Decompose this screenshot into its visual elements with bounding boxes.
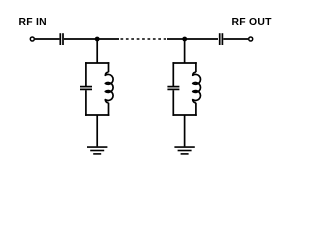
wire: tank A left branch upper bbox=[85, 62, 87, 86]
inductor LB (tank B) bbox=[193, 72, 201, 103]
wire: node to tank A top bbox=[96, 39, 98, 63]
wire: node to tank B top bbox=[184, 39, 186, 63]
wire: C1 to node A bbox=[64, 38, 97, 40]
wire: tank B left branch lower bbox=[172, 90, 174, 116]
output terminal bbox=[249, 37, 253, 41]
input terminal bbox=[30, 37, 34, 41]
wire: tank B top bar bbox=[172, 62, 196, 64]
wire: tank A bottom bar bbox=[85, 114, 109, 116]
series capacitor C2 (output coupling) bbox=[219, 33, 221, 45]
wire: node B to C2 bbox=[185, 38, 218, 40]
wire: tank B right branch lower bbox=[195, 103, 197, 116]
shunt capacitor CB (tank B) bbox=[167, 86, 179, 88]
shunt capacitor CA (tank A) bbox=[80, 86, 92, 88]
wire: C2 to output terminal bbox=[223, 38, 248, 40]
wire: tank A top bar bbox=[85, 62, 109, 64]
inductor LA (tank A) bbox=[105, 72, 113, 103]
wire: tank B left branch upper bbox=[172, 62, 174, 86]
wire: tank A left branch lower bbox=[85, 90, 87, 116]
wire: tank B right branch upper bbox=[195, 62, 197, 72]
svg-text:RF OUT: RF OUT bbox=[232, 17, 273, 28]
wire: dashed section to node B bbox=[167, 38, 185, 40]
ground B bbox=[174, 147, 194, 154]
dashed wire (omitted middle resonator sections) bbox=[121, 38, 167, 40]
wire: tank A right branch upper bbox=[108, 62, 110, 72]
ground A bbox=[87, 147, 107, 154]
node B junction dot bbox=[182, 37, 187, 42]
wire: tank A to ground bbox=[96, 115, 98, 146]
wire: node A toward omitted sections bbox=[97, 38, 119, 40]
wire: tank B to ground bbox=[184, 115, 186, 146]
wire: input terminal to C1 bbox=[35, 38, 59, 40]
svg-text:RF IN: RF IN bbox=[19, 17, 47, 28]
wire: tank B bottom bar bbox=[172, 114, 196, 116]
series capacitor C1 (input coupling) bbox=[59, 33, 61, 45]
node A junction dot bbox=[95, 37, 100, 42]
wire: tank A right branch lower bbox=[108, 103, 110, 116]
